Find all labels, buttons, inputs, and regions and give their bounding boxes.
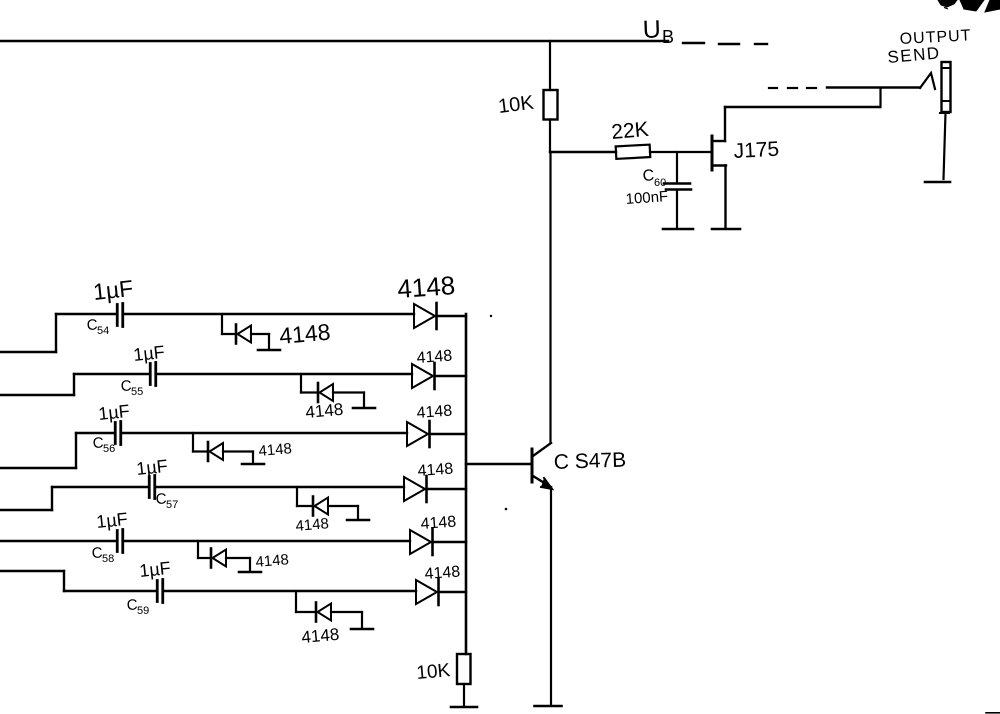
wire R3 to ground [463, 684, 465, 706]
svg-text:1µF: 1µF [97, 401, 130, 424]
resistor R3 10K body [457, 654, 471, 684]
wire shunt diode D3s to ground [223, 450, 253, 452]
ground for shunt diode D6s [351, 628, 373, 631]
wire channel 6 input stub [0, 570, 64, 572]
svg-text:4148: 4148 [420, 514, 457, 533]
wire D6 to summing bus [439, 591, 466, 593]
wire channel 4 shunt drop [296, 487, 298, 506]
wire channel 5 shunt drop [197, 541, 199, 558]
wire bus to Q2 base [466, 463, 532, 466]
wire channel 3 shunt drop [192, 433, 194, 452]
svg-text:U: U [642, 15, 661, 44]
svg-text:56: 56 [103, 443, 115, 455]
svg-text:4148: 4148 [295, 515, 330, 535]
resistor R2 22K body [616, 145, 651, 159]
svg-text:4148: 4148 [258, 440, 293, 460]
wire node A to Q2 collector riser [549, 152, 551, 443]
diode D5 4148 series [410, 530, 431, 554]
svg-text:59: 59 [137, 605, 149, 617]
capacitor C57 [148, 477, 151, 498]
svg-text:54: 54 [97, 325, 109, 337]
wire C60 tap down [676, 152, 678, 182]
wire D2 to summing bus [435, 375, 466, 377]
wire R1 to node A [549, 120, 551, 153]
wire UB power rail [0, 40, 668, 43]
wire UB rail dashed continuation [683, 42, 704, 44]
svg-text:1µF: 1µF [135, 456, 168, 479]
scan blob artifact top-right corner [938, 0, 957, 7]
capacitor C56 [114, 423, 117, 444]
wire node A to R2 22K [550, 151, 616, 153]
scan mark bottom-right edge [986, 712, 1000, 714]
wire channel 3 to capacitor C56 [76, 432, 115, 434]
wire C55 to diode D2 [156, 373, 412, 375]
jack J1 sleeve notch [940, 112, 949, 114]
capacitor C58 [116, 531, 119, 552]
svg-text:10K: 10K [416, 660, 452, 684]
wire summing bus [465, 314, 468, 654]
svg-text:4148: 4148 [301, 625, 340, 647]
wire channel 1 shunt drop [221, 314, 223, 334]
svg-text:58: 58 [102, 553, 114, 565]
speck near Q2 [505, 508, 508, 511]
ground for jack [925, 181, 950, 184]
transistor Q1 J175 channel bar [711, 136, 714, 170]
wire Q2 emitter to ground [550, 489, 552, 705]
svg-text:4148: 4148 [255, 551, 290, 571]
wire D5 to summing bus [433, 541, 466, 543]
wire D3 to summing bus [430, 433, 466, 435]
wire output riser [879, 88, 881, 107]
svg-text:C S47B: C S47B [553, 448, 626, 474]
ground for shunt diode D3s [242, 463, 264, 466]
diode D5s 4148 shunt [210, 549, 213, 568]
wire shunt diode D6s to ground [331, 611, 362, 613]
wire UB rail to R1 [549, 41, 551, 90]
wire C60 to ground [676, 190, 678, 227]
diode D1s 4148 shunt [235, 325, 238, 344]
svg-text:4148: 4148 [424, 564, 461, 583]
wire D1 to summing bus [437, 315, 466, 317]
ground for Q2 emitter [535, 705, 562, 708]
svg-text:60: 60 [654, 177, 666, 189]
wire jack sleeve to ground [944, 113, 946, 179]
svg-text:4148: 4148 [417, 461, 454, 480]
wire channel 2 shunt drop [300, 374, 302, 393]
wire dashed segments to jack [769, 87, 777, 89]
wire C59 to diode D6 [163, 590, 416, 592]
wire C54 to diode D1 [123, 313, 414, 315]
jack J1 tip contact arrow [920, 73, 935, 89]
wire shunt diode D2s to ground [333, 391, 364, 393]
wire Q1 drain to output riser [725, 106, 880, 108]
ground for R3 [451, 706, 477, 709]
wire to jack tip [827, 86, 920, 88]
wire channel 1 to capacitor C54 [56, 313, 117, 315]
wire shunt diode D1s to ground [251, 333, 269, 335]
capacitor C60 plates [664, 182, 690, 185]
ground for shunt diode D2s [353, 407, 375, 410]
diode D2 4148 series [412, 364, 433, 388]
wire shunt diode D5s to ground [226, 557, 250, 559]
ground for shunt diode D5s [239, 571, 261, 574]
wire channel 2 to capacitor C55 [74, 373, 150, 375]
capacitor C55 [149, 364, 152, 385]
diode D3 4148 series [407, 422, 428, 446]
diode D1 4148 series [414, 304, 435, 328]
svg-text:4148: 4148 [278, 319, 331, 349]
svg-text:B: B [662, 27, 674, 47]
svg-text:1µF: 1µF [95, 509, 128, 532]
svg-text:4148: 4148 [305, 400, 344, 422]
diode D4 4148 series [404, 477, 425, 501]
ground for shunt diode D4s [347, 519, 369, 522]
svg-text:1µF: 1µF [92, 275, 135, 305]
diode D4s 4148 shunt [312, 497, 315, 516]
ground for C60 [663, 228, 693, 231]
jack J1 body [942, 62, 951, 112]
svg-text:4148: 4148 [416, 348, 453, 367]
wire channel 2 input stub [0, 394, 74, 396]
resistor R1 10K body [544, 90, 558, 120]
wire R2 to J175 gate with C60 tap [650, 151, 712, 153]
transistor Q2 CS47B base bar [531, 449, 534, 482]
diode D2s 4148 shunt [317, 383, 320, 402]
diode D3s 4148 shunt [207, 442, 210, 461]
speck [490, 315, 492, 317]
wire channel 6 to capacitor C59 [64, 590, 157, 592]
transistor Q1 drain lead [712, 140, 725, 142]
ground for Q1 source [712, 228, 740, 231]
wire channel 4 to capacitor C57 [52, 486, 149, 488]
svg-text:55: 55 [131, 386, 143, 398]
svg-text:4148: 4148 [396, 270, 456, 304]
transistor Q2 emitter stroke with arrow [533, 476, 551, 487]
wire channel 3 input stub [0, 467, 76, 469]
wire channel 5 to capacitor C58 [0, 540, 117, 542]
svg-text:22K: 22K [610, 118, 649, 144]
svg-text:C: C [642, 167, 655, 185]
wire shunt diode D4s to ground [328, 505, 358, 507]
wire C56 to diode D3 [121, 432, 407, 434]
capacitor C59 [156, 581, 159, 602]
svg-text:10K: 10K [497, 92, 536, 118]
svg-text:1µF: 1µF [132, 342, 165, 365]
svg-text:4148: 4148 [416, 403, 453, 422]
diode D6 4148 series [416, 580, 437, 604]
transistor Q1 source lead [712, 164, 726, 166]
wire channel 4 input stub [0, 509, 52, 511]
wire channel 1 input stub [0, 351, 56, 353]
diode D6s 4148 shunt [315, 603, 318, 622]
capacitor C54 [116, 305, 119, 326]
svg-text:SEND: SEND [887, 43, 942, 67]
ground for shunt diode D1s [258, 349, 280, 352]
wire C57 to diode D4 [155, 486, 404, 488]
wire channel 6 shunt drop [295, 591, 297, 612]
transistor Q2 collector stroke [533, 443, 551, 456]
svg-text:100nF: 100nF [625, 188, 669, 208]
svg-text:J175: J175 [733, 138, 780, 163]
wire C58 to diode D5 [123, 540, 410, 542]
wire D4 to summing bus [427, 488, 466, 490]
svg-text:57: 57 [166, 499, 178, 511]
svg-text:1µF: 1µF [138, 558, 171, 581]
